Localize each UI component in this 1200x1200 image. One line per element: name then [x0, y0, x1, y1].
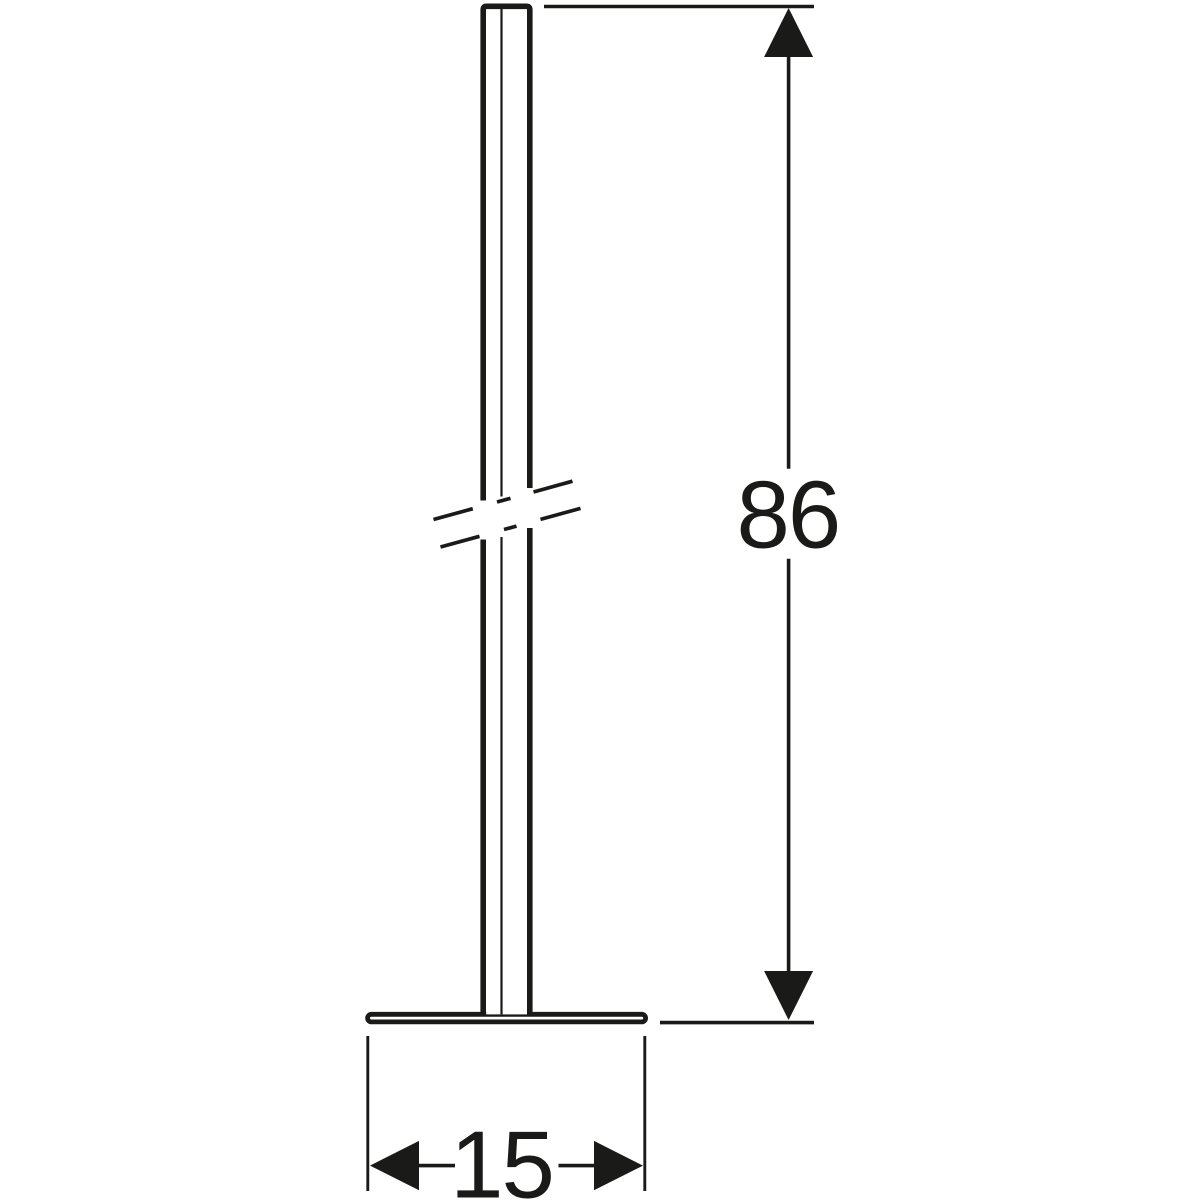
svg-text:86: 86 [737, 462, 840, 569]
svg-text:15: 15 [450, 1112, 553, 1200]
